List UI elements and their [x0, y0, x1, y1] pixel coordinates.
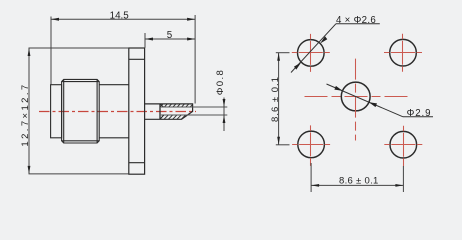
hole BL [298, 131, 325, 158]
coupling nut outline [62, 79, 100, 143]
dim 5 [145, 33, 195, 48]
hatch top band [158, 103, 198, 109]
svg-text:Φ2.9: Φ2.9 [407, 108, 432, 119]
dim 8.6 bottom [311, 163, 403, 192]
center pin lines [161, 107, 228, 115]
dim 14.5 [51, 15, 195, 104]
hatch bottom band [158, 113, 192, 121]
svg-text:14.5: 14.5 [110, 10, 130, 21]
dim Phi2.9 leader [327, 84, 434, 117]
dim 8.6 left [276, 53, 290, 145]
center hole [341, 82, 370, 111]
hole TR [390, 39, 417, 66]
dim phi0.8 [223, 98, 225, 132]
svg-text:5: 5 [167, 30, 173, 41]
body outline [99, 85, 129, 138]
flange outline [129, 48, 145, 174]
dim 4xPhi2.6 leader [291, 24, 380, 73]
insulator tube outline [145, 104, 193, 119]
center hole axes [305, 59, 410, 141]
pin entry chamfers [161, 104, 164, 118]
dim 12.7x12.7 [29, 48, 129, 174]
svg-text:12.7×12.7: 12.7×12.7 [20, 82, 31, 146]
svg-text:8.6 ± 0.1: 8.6 ± 0.1 [339, 176, 379, 187]
svg-text:4 × Φ2.6: 4 × Φ2.6 [336, 15, 376, 26]
svg-text:8.6 ± 0.1: 8.6 ± 0.1 [270, 76, 281, 122]
svg-text:Φ0.8: Φ0.8 [215, 69, 226, 96]
hole TL [298, 40, 325, 67]
insulator left face [159, 104, 161, 119]
centerline left view [39, 111, 196, 113]
left cap outline [51, 85, 62, 138]
hole BR [390, 131, 417, 158]
